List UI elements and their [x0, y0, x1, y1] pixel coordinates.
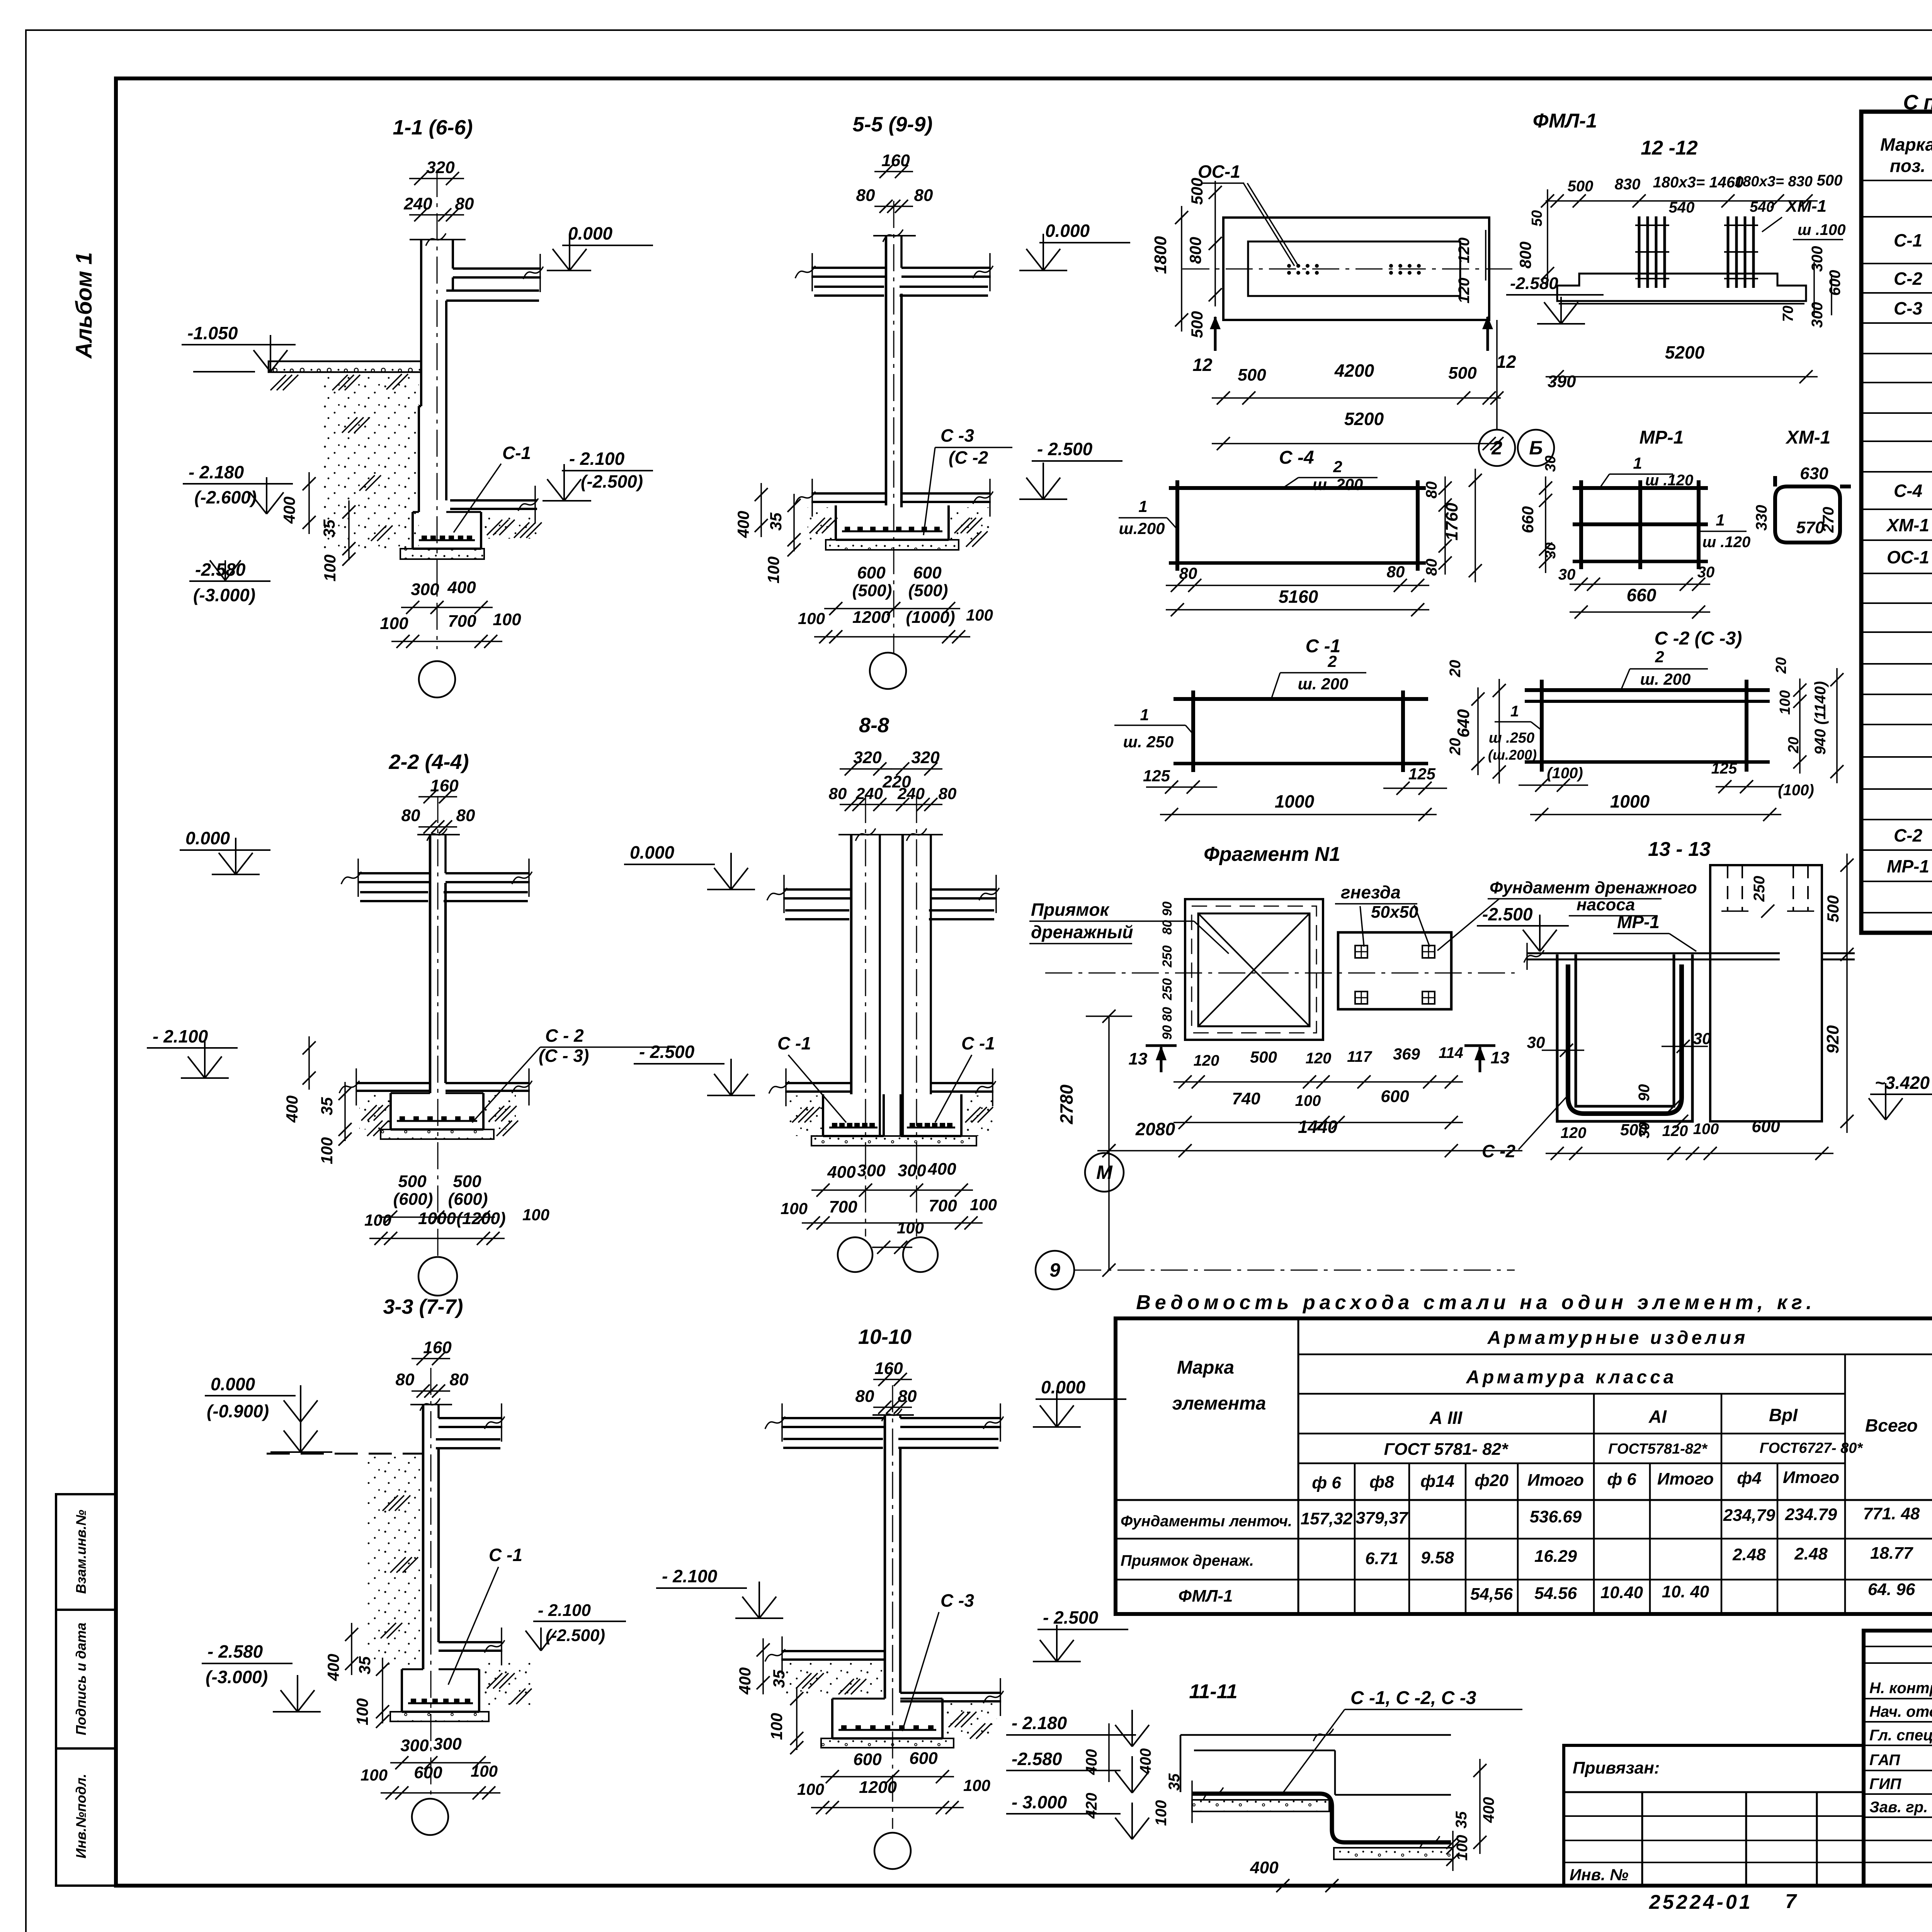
- section 2-2 level mark 0.000 left: [180, 828, 270, 874]
- svg-text:Нач. отд.: Нач. отд.: [1869, 1703, 1932, 1720]
- section 12-12 dowel bars group 1: [1635, 216, 1669, 288]
- mesh C-2 (C-3) title: [1655, 628, 1742, 649]
- svg-text:100: 100: [1693, 1121, 1719, 1138]
- fragment N1 axis circle 9: [1036, 1251, 1515, 1289]
- mesh C-1 label 1 sh.250: [1114, 706, 1193, 751]
- svg-text:500: 500: [453, 1172, 481, 1191]
- svg-text:400: 400: [734, 511, 752, 538]
- svg-text:30: 30: [1527, 1033, 1545, 1051]
- svg-text:114: 114: [1439, 1044, 1463, 1061]
- svg-text:800: 800: [1516, 241, 1534, 269]
- svg-text:600: 600: [853, 1750, 882, 1769]
- svg-text:80: 80: [1179, 564, 1197, 582]
- svg-text:300: 300: [898, 1161, 926, 1180]
- svg-text:МР-1: МР-1: [1617, 912, 1660, 932]
- section 5-5 level mark -2.500 right: [1019, 439, 1122, 499]
- svg-text:120: 120: [1456, 278, 1473, 304]
- section 10-10 wall: [872, 1409, 914, 1699]
- section 13-13 C-2 mesh U-line: [1568, 964, 1682, 1114]
- svg-text:Марка: Марка: [1177, 1357, 1234, 1378]
- svg-text:ГАП: ГАП: [1869, 1752, 1900, 1769]
- section 1-1 pavement slab left: [269, 361, 421, 372]
- svg-text:660: 660: [1627, 585, 1656, 605]
- svg-text:54.56: 54.56: [1534, 1584, 1577, 1603]
- svg-text:830: 830: [1615, 176, 1641, 193]
- section 1-1 basement floor slabs right: [450, 486, 538, 524]
- svg-text:- 2.100: - 2.100: [538, 1601, 591, 1620]
- svg-text:100: 100: [781, 1199, 808, 1218]
- svg-text:-2.500: -2.500: [1482, 904, 1533, 924]
- section 2-2 bottom dimensions 100 1000 100: [364, 1206, 549, 1245]
- svg-text:400: 400: [1137, 1748, 1154, 1775]
- section 8-8 upper floor slabs: [767, 875, 999, 919]
- svg-text:1200: 1200: [859, 1778, 897, 1797]
- section 5-5 soil hatch left: [808, 507, 837, 540]
- svg-text:330: 330: [1753, 505, 1770, 531]
- title block signature table grid: [1864, 1631, 1932, 1886]
- svg-text:540: 540: [1750, 199, 1774, 215]
- fragment N1 pump foundation plate: [1338, 932, 1451, 1009]
- section 13-13 level mark -3.420: [1869, 1073, 1932, 1120]
- svg-text:ф 6: ф 6: [1312, 1473, 1341, 1492]
- section 13-13 mesh label C-2: [1482, 1094, 1570, 1161]
- svg-text:400: 400: [927, 1160, 956, 1179]
- svg-text:100: 100: [1153, 1800, 1170, 1826]
- svg-text:700: 700: [448, 612, 476, 631]
- svg-text:7: 7: [1785, 1890, 1797, 1913]
- svg-text:ФМЛ-1: ФМЛ-1: [1533, 110, 1597, 132]
- table: steel usage - title: [1136, 1291, 1816, 1314]
- svg-text:(1200): (1200): [456, 1209, 505, 1228]
- svg-text:54,56: 54,56: [1470, 1585, 1513, 1604]
- svg-text:1: 1: [1510, 703, 1519, 720]
- svg-text:Б: Б: [1529, 437, 1543, 459]
- svg-text:0.000: 0.000: [185, 828, 230, 848]
- svg-text:800: 800: [1186, 237, 1204, 264]
- table: specification of foundation elements - grid: [1861, 112, 1932, 933]
- section 8-8 basement slabs: [769, 1068, 996, 1106]
- svg-text:234.79: 234.79: [1785, 1505, 1837, 1524]
- FML-1 inner offset dimensions 120: [1456, 230, 1486, 303]
- section 1-1 level mark -2.580 (-3.000): [189, 560, 270, 605]
- section 8-8 wall axis lines: [866, 796, 917, 1236]
- svg-text:35: 35: [318, 1097, 336, 1115]
- section 10-10 level mark -2.100 left: [656, 1566, 783, 1618]
- svg-text:Взам.инв.№: Взам.инв.№: [73, 1510, 89, 1594]
- FML-1 rebar label OC-1: [1198, 162, 1298, 266]
- section 5-5 top width dimensions: [856, 151, 933, 213]
- svg-text:100: 100: [764, 556, 782, 583]
- svg-text:300: 300: [411, 580, 439, 599]
- FML-1 level mark -2.580 and 390: [1490, 274, 1604, 450]
- section 2-2 footing: [391, 1093, 483, 1129]
- svg-text:2.48: 2.48: [1732, 1545, 1766, 1564]
- svg-text:400: 400: [280, 497, 298, 524]
- svg-text:80: 80: [829, 784, 847, 803]
- svg-text:ГОСТ6727- 80*: ГОСТ6727- 80*: [1760, 1440, 1864, 1456]
- svg-text:500: 500: [1188, 178, 1206, 205]
- svg-text:ш .120: ш .120: [1645, 472, 1694, 489]
- section 1-1 bottom dimensions 100 700 100: [380, 610, 521, 648]
- section 10-10 basement slab left: [765, 1636, 885, 1674]
- section 10-10 bottom dimensions 600 600: [821, 1749, 954, 1783]
- svg-text:1-1 (6-6): 1-1 (6-6): [393, 116, 473, 139]
- svg-text:2.48: 2.48: [1794, 1544, 1828, 1563]
- section 3-3 bedding layer: [390, 1712, 489, 1721]
- FML-1 center axis line: [1182, 269, 1515, 270]
- svg-text:Фундаменты ленточ.: Фундаменты ленточ.: [1121, 1513, 1292, 1530]
- svg-text:- 2.100: - 2.100: [153, 1026, 208, 1046]
- svg-text:600: 600: [414, 1763, 442, 1782]
- svg-text:2: 2: [1333, 457, 1342, 476]
- svg-text:100: 100: [970, 1196, 997, 1214]
- svg-text:300: 300: [400, 1736, 429, 1755]
- svg-text:13: 13: [1491, 1048, 1510, 1067]
- fragment N1 label pump foundation: [1437, 878, 1697, 951]
- svg-text:Марка: Марка: [1880, 134, 1932, 155]
- section 10-10 upper floor slabs: [765, 1403, 1003, 1448]
- svg-text:30: 30: [1693, 1029, 1711, 1048]
- svg-text:30: 30: [1558, 566, 1576, 583]
- section 10-10 mesh label C-3: [902, 1590, 974, 1731]
- section 8-8 soil hatch left: [788, 1095, 823, 1136]
- svg-text:(100): (100): [1778, 782, 1814, 799]
- svg-text:4200: 4200: [1334, 361, 1374, 381]
- svg-text:100: 100: [963, 1776, 990, 1794]
- svg-text:120: 120: [1194, 1052, 1219, 1069]
- svg-text:50: 50: [1529, 210, 1545, 226]
- svg-text:10. 40: 10. 40: [1662, 1582, 1709, 1601]
- svg-text:90: 90: [1160, 1025, 1175, 1040]
- section 3-3 bottom dimensions 100 600 100: [361, 1762, 500, 1799]
- section 12-12 right dimensions 300 600 70 300: [1780, 246, 1844, 328]
- svg-text:5160: 5160: [1279, 587, 1318, 607]
- mesh C-2 label 1 sh.250 (sh.200): [1488, 703, 1542, 763]
- svg-text:ОС-1: ОС-1: [1887, 547, 1929, 567]
- section 5-5 mesh label C-3 (C-2): [923, 425, 1012, 535]
- svg-text:20: 20: [1773, 657, 1789, 674]
- section 2-2 wall axis line: [437, 796, 439, 1258]
- section 11-11 upper floor line: [1180, 1729, 1451, 1792]
- section 2-2 bedding layer: [381, 1129, 494, 1139]
- svg-text:Инв.№подл.: Инв.№подл.: [73, 1774, 89, 1858]
- svg-text:35: 35: [320, 519, 338, 537]
- mesh C-1 label 2 sh.200: [1271, 652, 1366, 699]
- svg-text:500: 500: [1250, 1048, 1277, 1066]
- section 10-10 footing: [832, 1699, 942, 1738]
- mesh C-1 right dimensions 20 640 20: [1447, 660, 1506, 784]
- section 10-10 left depth dimensions: [736, 1638, 803, 1754]
- svg-text:С-3: С-3: [1894, 298, 1923, 318]
- section 13-13 bottom dimensions 120 500 120 100 600: [1546, 1117, 1833, 1160]
- fragment N1 label pit: [1029, 900, 1229, 954]
- svg-text:125: 125: [1408, 765, 1436, 783]
- svg-text:100: 100: [361, 1766, 388, 1784]
- mesh C-4 label 1 sh.200 left: [1119, 497, 1177, 537]
- svg-text:1000: 1000: [418, 1209, 456, 1228]
- section 10-10 bedding layer: [821, 1738, 954, 1748]
- svg-text:ХМ-1: ХМ-1: [1785, 427, 1831, 448]
- svg-text:3-3 (7-7): 3-3 (7-7): [383, 1295, 463, 1318]
- svg-text:Всего: Всего: [1865, 1415, 1918, 1435]
- section 3-3 left depth dimensions: [324, 1623, 389, 1728]
- svg-text:ХМ-1: ХМ-1: [1886, 515, 1929, 535]
- section 12-12 dowel bars group 2: [1724, 216, 1758, 288]
- section 8-8 mesh labels C-1: [777, 1033, 995, 1122]
- svg-text:10-10: 10-10: [858, 1325, 912, 1349]
- svg-text:Приямок дренаж.: Приямок дренаж.: [1121, 1552, 1254, 1569]
- section 10-10 title: [858, 1325, 912, 1349]
- svg-text:(600): (600): [448, 1190, 488, 1209]
- stirrup XM-1 title: [1785, 427, 1831, 448]
- section 3-3 wall: [410, 1398, 452, 1669]
- section 2-2 soil hatch left: [359, 1094, 391, 1136]
- svg-text:100: 100: [966, 606, 993, 624]
- title block signatures: [1869, 1680, 1932, 1816]
- mesh C-2 label 2 sh.200: [1621, 648, 1708, 690]
- section 10-10 level mark 0.000 right: [1033, 1377, 1126, 1427]
- svg-text:С -1, С -2, С -3: С -1, С -2, С -3: [1350, 1688, 1476, 1708]
- svg-text:Итого: Итого: [1657, 1469, 1714, 1488]
- svg-text:100: 100: [364, 1211, 391, 1229]
- svg-text:АI: АI: [1648, 1406, 1667, 1427]
- mesh C-1 bottom dimensions 125 1000 125: [1143, 765, 1447, 821]
- svg-text:100: 100: [797, 1780, 824, 1798]
- svg-text:дренажный: дренажный: [1031, 922, 1133, 942]
- table: specification rows - strip foundations group: [1894, 189, 1932, 379]
- svg-text:100: 100: [798, 609, 825, 628]
- svg-text:500: 500: [1448, 364, 1477, 383]
- fragment N1 pit plan dimensions 90 80 250 250 80 90: [1160, 901, 1175, 1040]
- svg-text:Фрагмент N1: Фрагмент N1: [1204, 843, 1340, 866]
- svg-text:80: 80: [914, 186, 933, 205]
- svg-text:100: 100: [1777, 690, 1793, 714]
- svg-text:250: 250: [1160, 946, 1175, 968]
- svg-text:700: 700: [829, 1197, 857, 1216]
- stirrup XM-1 dimensions: [1753, 464, 1837, 537]
- section 3-3 level mark -2.100 right: [526, 1601, 626, 1651]
- svg-text:ГОСТ5781-82*: ГОСТ5781-82*: [1608, 1441, 1708, 1457]
- svg-text:660: 660: [1519, 506, 1537, 533]
- svg-text:300: 300: [433, 1735, 462, 1753]
- section 2-2 soil hatch right: [483, 1094, 518, 1136]
- section 1-1 wall axis line: [437, 170, 438, 649]
- svg-text:90: 90: [1160, 901, 1175, 916]
- section 1-1 footing: [413, 512, 481, 549]
- svg-text:(-3.000): (-3.000): [193, 585, 255, 605]
- section 12-12 bottom dimension 5200: [1546, 342, 1818, 383]
- section 12-12 label XM-1: [1762, 197, 1846, 240]
- fragment N1 sockets label: [1335, 882, 1430, 947]
- svg-text:1200: 1200: [852, 608, 890, 627]
- fragment N1 socket squares: [1355, 946, 1435, 1004]
- svg-text:120: 120: [1306, 1050, 1332, 1067]
- svg-text:80: 80: [855, 1387, 874, 1406]
- section 1-1 level mark -1.050: [182, 323, 296, 372]
- svg-text:250: 250: [1160, 978, 1175, 1001]
- mesh MP-1 label 1 sh.120 right: [1700, 511, 1750, 551]
- svg-text:5200: 5200: [1665, 342, 1705, 362]
- section 8-8 bottom dimensions 100 700 700 100: [781, 1196, 997, 1254]
- svg-text:ВрI: ВрI: [1769, 1405, 1798, 1425]
- svg-text:2080: 2080: [1135, 1119, 1175, 1139]
- svg-text:поз.: поз.: [1890, 156, 1925, 176]
- section 5-5 basement slabs: [795, 479, 993, 517]
- svg-text:Привязан:: Привязан:: [1573, 1759, 1660, 1777]
- svg-text:1: 1: [1716, 511, 1725, 529]
- section 2-2 upper floor slabs: [341, 859, 532, 901]
- svg-text:420: 420: [1083, 1793, 1100, 1819]
- svg-text:240: 240: [897, 784, 925, 803]
- section 3-3 soil right of footing: [479, 1662, 533, 1708]
- album label: [71, 252, 97, 359]
- svg-text:Итого: Итого: [1783, 1468, 1839, 1487]
- mesh C-4 title: [1279, 447, 1314, 468]
- svg-text:400: 400: [1250, 1858, 1279, 1877]
- svg-text:117: 117: [1347, 1048, 1372, 1065]
- svg-text:300: 300: [857, 1161, 886, 1180]
- mesh C-4 label 2 sh.200 top: [1283, 457, 1378, 493]
- svg-text:80: 80: [1160, 1007, 1175, 1022]
- svg-text:ш. 200: ш. 200: [1298, 675, 1349, 693]
- section 3-3 soil fill left of wall: [367, 1457, 423, 1669]
- svg-text:120: 120: [1456, 238, 1473, 264]
- svg-text:ф14: ф14: [1420, 1472, 1454, 1491]
- svg-text:2-2 (4-4): 2-2 (4-4): [388, 750, 469, 774]
- section 2-2 wall: [417, 828, 460, 1093]
- svg-text:70: 70: [1780, 306, 1796, 322]
- svg-text:180х3= 830: 180х3= 830: [1735, 173, 1813, 190]
- svg-text:35: 35: [355, 1656, 374, 1674]
- title block outline: [1864, 1631, 1932, 1886]
- svg-text:25224-01: 25224-01: [1649, 1891, 1753, 1913]
- section 5-5 wall: [873, 230, 916, 507]
- svg-text:(1000): (1000): [906, 608, 955, 627]
- svg-text:369: 369: [1393, 1045, 1420, 1063]
- svg-text:6.71: 6.71: [1365, 1549, 1398, 1568]
- mesh C-4 bars: [1169, 480, 1426, 571]
- svg-text:13: 13: [1129, 1049, 1148, 1068]
- section 11-11 levels -2.180 -2.580 -3.000: [1006, 1710, 1149, 1839]
- svg-text:30: 30: [1543, 456, 1559, 472]
- svg-text:ш. 200: ш. 200: [1313, 475, 1363, 493]
- FML-1 left height dimensions 1800 500 800 500: [1151, 178, 1222, 338]
- svg-text:400: 400: [324, 1654, 342, 1681]
- svg-text:100: 100: [767, 1713, 786, 1740]
- section 13-13 dimensions 30 30 90: [1527, 1029, 1711, 1138]
- FML-1 bottom dimensions 500 4200 500: [1212, 361, 1501, 405]
- svg-text:240: 240: [403, 194, 432, 213]
- table: specification of foundation elements - header: [1880, 130, 1932, 176]
- svg-text:8-8: 8-8: [859, 714, 889, 737]
- section 13-13 block dimension 250: [1751, 876, 1774, 918]
- section 2-2 (4-4) title: [388, 750, 469, 774]
- mesh C-4 right dimensions 80 1760 80: [1423, 469, 1482, 582]
- section 1-1 level mark 0.000: [547, 223, 653, 270]
- svg-text:- 2.180: - 2.180: [189, 462, 244, 482]
- svg-text:30: 30: [1697, 564, 1715, 581]
- svg-text:771. 48: 771. 48: [1863, 1504, 1920, 1523]
- svg-text:(-2.600): (-2.600): [194, 487, 257, 507]
- section 13-13 title: [1648, 838, 1711, 861]
- svg-text:(-2.500): (-2.500): [581, 471, 643, 492]
- svg-text:320: 320: [426, 158, 455, 177]
- mesh C-2 bars: [1525, 680, 1770, 772]
- svg-text:ф4: ф4: [1737, 1469, 1761, 1488]
- section 10-10 level mark -2.500 right: [1033, 1607, 1128, 1662]
- svg-text:С -3: С -3: [940, 1590, 974, 1611]
- svg-text:(600): (600): [393, 1190, 433, 1209]
- fragment N1 section cut 13 right: [1464, 1046, 1509, 1072]
- svg-text:100: 100: [522, 1206, 549, 1224]
- svg-text:20: 20: [1447, 738, 1464, 756]
- svg-text:- 2.100: - 2.100: [662, 1566, 718, 1586]
- svg-text:600: 600: [1752, 1117, 1780, 1136]
- section 13-13 pit walls: [1557, 954, 1692, 1121]
- section 1-1 (6-6) title: [393, 116, 473, 139]
- section 10-10 axis circle: [874, 1833, 911, 1869]
- section 12-12 left dimensions 50 800: [1516, 189, 1554, 285]
- section 5-5 (9-9) title: [852, 113, 932, 136]
- fragment N1 axis circle M: [1085, 1153, 1124, 1192]
- svg-text:80: 80: [898, 1387, 917, 1406]
- svg-text:ХМ-1: ХМ-1: [1785, 197, 1827, 216]
- section 3-3 mesh label C-1: [448, 1545, 522, 1685]
- FML-1 axis circles 2 and B: [1479, 430, 1554, 466]
- svg-text:400: 400: [1480, 1797, 1497, 1823]
- svg-text:Подпись и дата: Подпись и дата: [73, 1622, 89, 1735]
- svg-text:80: 80: [450, 1370, 469, 1389]
- svg-text:700: 700: [929, 1196, 957, 1215]
- svg-text:Фундамент дренажного: Фундамент дренажного: [1490, 878, 1697, 897]
- section 11-11 step profile: [1194, 1750, 1451, 1795]
- section 1-1 mesh label C-1: [454, 443, 531, 532]
- svg-text:С - 2: С - 2: [545, 1026, 584, 1046]
- section 10-10 top width dimensions: [855, 1359, 917, 1414]
- svg-text:125: 125: [1711, 760, 1737, 777]
- svg-text:2: 2: [1327, 652, 1337, 670]
- svg-text:920: 920: [1823, 1025, 1842, 1054]
- section 13-13 level mark -2.500: [1477, 904, 1569, 951]
- svg-text:80: 80: [939, 784, 957, 803]
- section 5-5 footing: [836, 505, 949, 540]
- section 13-13 pump foundation block: [1710, 865, 1822, 1121]
- section 3-3 level mark -2.580 (-3.000) left: [202, 1641, 321, 1712]
- svg-text:1: 1: [1633, 454, 1642, 472]
- svg-text:5-5 (9-9): 5-5 (9-9): [852, 113, 932, 136]
- svg-text:120: 120: [1561, 1124, 1587, 1141]
- section 8-8 top width dimensions: [829, 748, 957, 811]
- section 8-8 footing left: [823, 1094, 884, 1136]
- svg-text:80: 80: [401, 806, 420, 825]
- section 2-2 bottom dimensions 500 600: [379, 1172, 495, 1224]
- svg-text:64. 96: 64. 96: [1868, 1580, 1915, 1599]
- fragment N1 section cut 13 left: [1129, 1046, 1177, 1072]
- svg-text:- 2.500: - 2.500: [639, 1042, 695, 1062]
- svg-text:500: 500: [1238, 366, 1266, 384]
- FML-1 plan title: [1533, 110, 1597, 132]
- svg-text:250: 250: [1751, 876, 1768, 902]
- svg-text:10.40: 10.40: [1600, 1583, 1643, 1602]
- svg-text:0.000: 0.000: [211, 1374, 255, 1394]
- svg-text:2: 2: [1491, 437, 1502, 459]
- svg-text:- 2.100: - 2.100: [569, 449, 625, 469]
- section 1-1 top width dimensions: [403, 158, 474, 221]
- svg-text:Н. контр.: Н. контр.: [1869, 1680, 1932, 1697]
- section 8-8 level mark -2.500 left: [634, 1042, 755, 1095]
- svg-text:С-4: С-4: [1894, 481, 1922, 501]
- svg-text:100: 100: [318, 1137, 336, 1164]
